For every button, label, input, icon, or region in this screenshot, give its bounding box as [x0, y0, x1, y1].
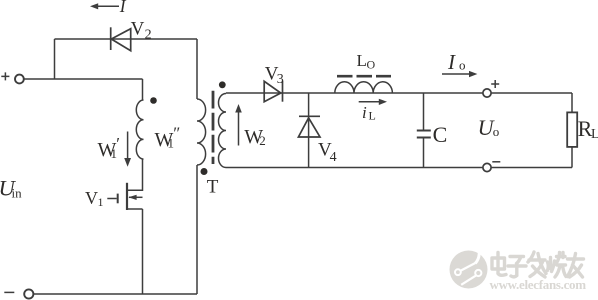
wire: mosfet source to bottom rail [142, 209, 144, 294]
watermark chinese text 电子发烧友 [492, 252, 584, 277]
+ output terminal [483, 80, 499, 97]
wire: bottom rail [33, 293, 197, 295]
- output terminal [483, 162, 500, 172]
arrow W1' direction [124, 132, 131, 167]
capacitor C [417, 93, 431, 168]
svg-text:o: o [459, 58, 466, 73]
diode V4 (freewheel) [298, 93, 320, 168]
wire: primary bottom to bottom rail [196, 165, 198, 294]
wire: top demag loop horizontal [55, 38, 198, 40]
diode V2 [111, 27, 131, 50]
友 [568, 254, 584, 278]
transformer secondary winding W2 [219, 94, 226, 168]
svg-text:i: i [362, 103, 367, 122]
transformer core (dashed) [212, 91, 215, 164]
inductor Lo [335, 82, 393, 93]
wire: secondary bottom rail [226, 167, 572, 169]
transformer primary winding W1 [197, 99, 206, 165]
svg-text:L: L [591, 127, 598, 142]
arrow W2 direction [235, 104, 242, 146]
电 [492, 253, 506, 276]
svg-text:4: 4 [330, 150, 337, 165]
svg-text:O: O [367, 58, 376, 72]
svg-text:in: in [12, 186, 23, 201]
winding W1'' (reset winding) [136, 100, 143, 159]
svg-text:T: T [207, 177, 219, 198]
+ input terminal [1, 72, 24, 83]
烧 [548, 253, 567, 278]
svg-text:I: I [447, 50, 456, 74]
svg-text:I: I [119, 0, 127, 16]
wire: left vertical from top loop to + rail [54, 39, 56, 79]
svg-text:o: o [493, 124, 500, 139]
dot primary polarity [201, 168, 208, 175]
dot secondary polarity [219, 81, 226, 88]
wire: top loop down to primary [196, 39, 198, 99]
dot W1'' polarity [150, 97, 157, 104]
diode V3 [264, 81, 282, 102]
svg-text:L: L [369, 109, 376, 123]
svg-text:″: ″ [173, 124, 180, 143]
wire: down to winding W1'' [142, 79, 144, 100]
svg-text:V: V [131, 18, 145, 39]
svg-text:1: 1 [98, 195, 104, 209]
svg-text:2: 2 [145, 28, 152, 43]
svg-text:www.elecfans.com: www.elecfans.com [490, 277, 587, 292]
wire: secondary top rail [226, 92, 572, 94]
svg-text:V: V [85, 188, 98, 208]
svg-text:′: ′ [116, 134, 120, 153]
wire: winding bottom to mosfet drain [128, 159, 143, 190]
resistor RL [567, 93, 577, 168]
svg-text:3: 3 [277, 72, 284, 87]
子 [508, 257, 526, 277]
arrow Io [442, 71, 477, 77]
wire: + rail [24, 78, 143, 80]
arrow iL [359, 99, 387, 105]
发 [528, 252, 546, 277]
watermark logo circle [450, 248, 488, 288]
inductor core dashes [337, 75, 391, 78]
svg-text:C: C [433, 122, 448, 147]
transistor V1 (MOSFET) [107, 183, 142, 210]
svg-text:2: 2 [259, 133, 266, 148]
svg-text:L: L [357, 51, 367, 70]
- input terminal [4, 289, 33, 298]
current arrow I [90, 3, 119, 9]
